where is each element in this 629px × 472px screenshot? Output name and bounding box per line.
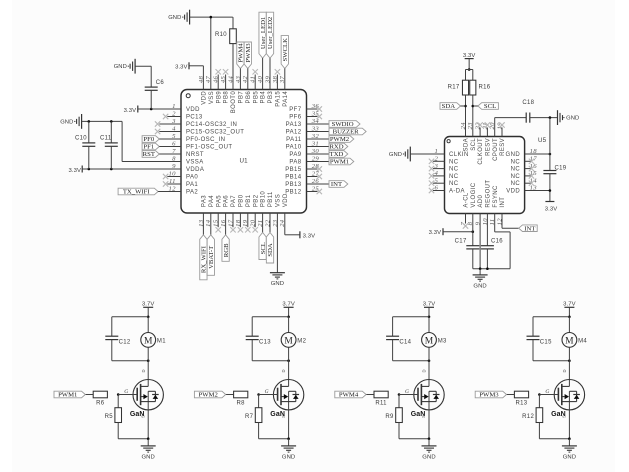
svg-text:FSYNC: FSYNC bbox=[493, 185, 499, 208]
svg-text:C15: C15 bbox=[540, 339, 552, 345]
svg-text:PA4: PA4 bbox=[209, 195, 215, 207]
svg-text:VDD: VDD bbox=[186, 107, 200, 113]
svg-text:3.3V: 3.3V bbox=[429, 230, 442, 236]
svg-text:RESV: RESV bbox=[500, 138, 506, 156]
svg-text:SCL: SCL bbox=[484, 103, 496, 110]
svg-text:SDA: SDA bbox=[464, 138, 470, 152]
svg-text:A-DA: A-DA bbox=[449, 189, 465, 195]
svg-text:C13: C13 bbox=[259, 339, 271, 345]
svg-text:INT: INT bbox=[331, 181, 342, 188]
svg-text:VSS: VSS bbox=[209, 91, 215, 104]
svg-text:RXD: RXD bbox=[329, 144, 343, 151]
svg-text:PA2: PA2 bbox=[186, 190, 198, 196]
svg-text:PF7: PF7 bbox=[289, 107, 301, 113]
svg-text:GND: GND bbox=[506, 152, 521, 158]
svg-text:PB8: PB8 bbox=[224, 91, 230, 104]
svg-text:PB3: PB3 bbox=[268, 91, 274, 104]
svg-text:PC14-OSC32_IN: PC14-OSC32_IN bbox=[186, 122, 237, 128]
svg-text:RESV: RESV bbox=[486, 138, 492, 156]
svg-text:3.3V: 3.3V bbox=[124, 108, 137, 114]
svg-text:SCL: SCL bbox=[260, 242, 267, 254]
svg-text:PC13: PC13 bbox=[186, 115, 203, 121]
svg-text:PA10: PA10 bbox=[286, 145, 302, 151]
svg-text:PA13: PA13 bbox=[286, 122, 302, 128]
svg-text:PB5: PB5 bbox=[253, 91, 259, 104]
svg-text:RGB: RGB bbox=[223, 243, 230, 257]
svg-text:C16: C16 bbox=[491, 239, 503, 245]
svg-text:PA15: PA15 bbox=[276, 91, 282, 107]
svg-text:PB14: PB14 bbox=[285, 175, 302, 181]
svg-text:M1: M1 bbox=[157, 339, 166, 345]
svg-text:C18: C18 bbox=[522, 100, 534, 106]
svg-text:M3: M3 bbox=[438, 339, 447, 345]
svg-text:PF1-OSC_OUT: PF1-OSC_OUT bbox=[186, 145, 232, 151]
svg-text:PB1: PB1 bbox=[246, 194, 252, 207]
svg-text:PWM3: PWM3 bbox=[245, 43, 252, 63]
svg-text:PB7: PB7 bbox=[239, 91, 245, 104]
svg-text:VBAT-T: VBAT-T bbox=[208, 246, 215, 269]
svg-text:NC: NC bbox=[449, 181, 459, 187]
svg-text:D: D bbox=[562, 369, 567, 372]
svg-text:PWM2: PWM2 bbox=[198, 392, 217, 399]
svg-text:R5: R5 bbox=[105, 414, 114, 420]
svg-text:SCL: SCL bbox=[471, 138, 477, 151]
svg-text:SWCLK: SWCLK bbox=[282, 38, 289, 62]
svg-text:S: S bbox=[140, 415, 145, 418]
svg-text:RST: RST bbox=[143, 151, 155, 158]
svg-text:PF1: PF1 bbox=[143, 144, 154, 151]
svg-text:PA6: PA6 bbox=[224, 195, 230, 207]
svg-text:C11: C11 bbox=[100, 136, 112, 142]
svg-text:PA1: PA1 bbox=[186, 182, 198, 188]
svg-text:C17: C17 bbox=[455, 239, 467, 245]
svg-text:PF0-OSC_IN: PF0-OSC_IN bbox=[186, 137, 225, 143]
svg-text:S: S bbox=[281, 415, 286, 418]
svg-text:User_LED1: User_LED1 bbox=[260, 17, 267, 49]
svg-text:PWM1: PWM1 bbox=[330, 159, 349, 166]
svg-text:U5: U5 bbox=[538, 137, 547, 144]
svg-text:PA14: PA14 bbox=[283, 91, 289, 107]
svg-text:R8: R8 bbox=[237, 400, 246, 406]
svg-text:R7: R7 bbox=[245, 414, 254, 420]
svg-text:GND: GND bbox=[271, 281, 284, 287]
svg-text:PB10: PB10 bbox=[261, 191, 267, 208]
svg-text:PC15-OSC32_OUT: PC15-OSC32_OUT bbox=[186, 130, 244, 136]
svg-text:RX_WIFI: RX_WIFI bbox=[201, 246, 208, 273]
svg-text:PA12: PA12 bbox=[286, 130, 302, 136]
svg-text:NRST: NRST bbox=[186, 152, 204, 158]
svg-text:G: G bbox=[265, 389, 269, 395]
svg-text:PB0: PB0 bbox=[239, 194, 245, 207]
svg-text:PA8: PA8 bbox=[289, 160, 301, 166]
svg-text:GND: GND bbox=[60, 119, 73, 125]
svg-text:NC: NC bbox=[511, 159, 521, 165]
svg-text:INT: INT bbox=[524, 225, 535, 232]
svg-text:GND: GND bbox=[168, 15, 181, 21]
svg-text:R11: R11 bbox=[375, 400, 387, 406]
svg-text:GND: GND bbox=[389, 152, 402, 158]
svg-text:User_LED2: User_LED2 bbox=[267, 17, 274, 49]
svg-text:C12: C12 bbox=[119, 339, 131, 345]
svg-text:PWM2: PWM2 bbox=[330, 136, 349, 143]
svg-text:PB11: PB11 bbox=[268, 191, 274, 207]
svg-text:PB9: PB9 bbox=[216, 91, 222, 104]
svg-text:M4: M4 bbox=[578, 339, 587, 345]
svg-text:GND: GND bbox=[142, 454, 155, 460]
svg-text:CLKOUT: CLKOUT bbox=[478, 138, 484, 165]
svg-text:BUZZER: BUZZER bbox=[333, 129, 360, 136]
svg-text:S: S bbox=[421, 415, 426, 418]
svg-text:PF6: PF6 bbox=[289, 115, 301, 121]
svg-text:C10: C10 bbox=[75, 136, 87, 142]
svg-text:3.3V: 3.3V bbox=[303, 234, 316, 240]
svg-text:SDA: SDA bbox=[442, 103, 456, 110]
svg-text:3.7V: 3.7V bbox=[142, 301, 155, 307]
svg-text:PA9: PA9 bbox=[289, 152, 301, 158]
svg-text:R9: R9 bbox=[385, 414, 394, 420]
svg-text:U1: U1 bbox=[240, 157, 249, 164]
svg-text:VDDA: VDDA bbox=[186, 167, 204, 173]
svg-text:PA5: PA5 bbox=[216, 195, 222, 207]
svg-text:PA11: PA11 bbox=[286, 137, 302, 143]
svg-text:NC: NC bbox=[449, 159, 459, 165]
svg-text:NC: NC bbox=[449, 174, 459, 180]
svg-text:PWM4: PWM4 bbox=[339, 392, 359, 399]
svg-text:R6: R6 bbox=[96, 400, 105, 406]
svg-text:M: M bbox=[284, 336, 293, 346]
svg-text:M: M bbox=[425, 336, 434, 346]
svg-text:R16: R16 bbox=[479, 85, 491, 91]
svg-text:NC: NC bbox=[511, 174, 521, 180]
svg-text:PB6: PB6 bbox=[246, 91, 252, 104]
svg-text:CLKIN: CLKIN bbox=[449, 152, 469, 158]
svg-text:3.7V: 3.7V bbox=[563, 301, 576, 307]
svg-text:SWDIO: SWDIO bbox=[332, 121, 354, 128]
svg-text:GND: GND bbox=[563, 454, 576, 460]
svg-text:PF0: PF0 bbox=[143, 136, 154, 143]
svg-text:NC: NC bbox=[511, 181, 521, 187]
svg-text:GND: GND bbox=[282, 454, 295, 460]
svg-text:VDD: VDD bbox=[283, 193, 289, 207]
svg-text:G: G bbox=[545, 389, 549, 395]
svg-text:PB2: PB2 bbox=[253, 194, 259, 207]
svg-text:GND: GND bbox=[473, 283, 486, 289]
svg-text:TXD: TXD bbox=[330, 151, 344, 158]
svg-text:VDD: VDD bbox=[202, 91, 208, 105]
svg-text:R10: R10 bbox=[215, 32, 227, 38]
svg-text:PWM4: PWM4 bbox=[238, 43, 245, 63]
svg-text:REGOUT: REGOUT bbox=[486, 180, 492, 208]
svg-text:PA3: PA3 bbox=[202, 195, 208, 207]
svg-text:PWM3: PWM3 bbox=[479, 392, 499, 399]
svg-text:M2: M2 bbox=[297, 339, 306, 345]
svg-text:CPOUT: CPOUT bbox=[493, 138, 499, 161]
svg-text:D: D bbox=[281, 369, 286, 372]
svg-text:G: G bbox=[405, 389, 409, 395]
svg-text:C6: C6 bbox=[156, 80, 165, 86]
svg-text:AD0: AD0 bbox=[478, 194, 484, 207]
svg-text:PB4: PB4 bbox=[261, 91, 267, 104]
svg-text:M: M bbox=[144, 336, 153, 346]
svg-text:3.3V: 3.3V bbox=[175, 64, 188, 70]
svg-text:PB15: PB15 bbox=[285, 167, 302, 173]
svg-text:NC: NC bbox=[511, 167, 521, 173]
svg-text:G: G bbox=[124, 389, 128, 395]
svg-text:PA0: PA0 bbox=[186, 175, 198, 181]
svg-text:3.7V: 3.7V bbox=[282, 301, 295, 307]
svg-text:R17: R17 bbox=[448, 85, 460, 91]
svg-text:PA7: PA7 bbox=[231, 195, 237, 207]
svg-text:NC: NC bbox=[449, 167, 459, 173]
svg-text:SDA: SDA bbox=[267, 243, 274, 257]
svg-text:VLOGIC: VLOGIC bbox=[471, 182, 477, 207]
svg-text:A-CL: A-CL bbox=[464, 192, 470, 208]
svg-text:GND: GND bbox=[566, 116, 579, 122]
svg-text:D: D bbox=[422, 369, 427, 372]
svg-text:TX_WIFI: TX_WIFI bbox=[123, 189, 150, 196]
svg-text:3.7V: 3.7V bbox=[423, 301, 436, 307]
svg-text:S: S bbox=[562, 415, 567, 418]
svg-text:VSSA: VSSA bbox=[186, 160, 204, 166]
svg-text:R13: R13 bbox=[516, 400, 528, 406]
svg-text:GND: GND bbox=[114, 64, 127, 70]
svg-text:3.3V: 3.3V bbox=[68, 168, 81, 174]
svg-text:C14: C14 bbox=[399, 339, 411, 345]
svg-text:VDD: VDD bbox=[506, 189, 520, 195]
svg-text:VSS: VSS bbox=[276, 194, 282, 207]
svg-text:R12: R12 bbox=[522, 414, 534, 420]
svg-text:BOOT0: BOOT0 bbox=[231, 91, 237, 114]
svg-text:M: M bbox=[565, 336, 574, 346]
svg-text:3.3V: 3.3V bbox=[545, 207, 558, 213]
svg-text:PB13: PB13 bbox=[285, 182, 302, 188]
svg-text:INT: INT bbox=[500, 197, 506, 208]
svg-text:PWM1: PWM1 bbox=[58, 392, 77, 399]
svg-text:GND: GND bbox=[422, 454, 435, 460]
svg-text:C19: C19 bbox=[555, 166, 567, 172]
svg-text:D: D bbox=[141, 369, 146, 372]
